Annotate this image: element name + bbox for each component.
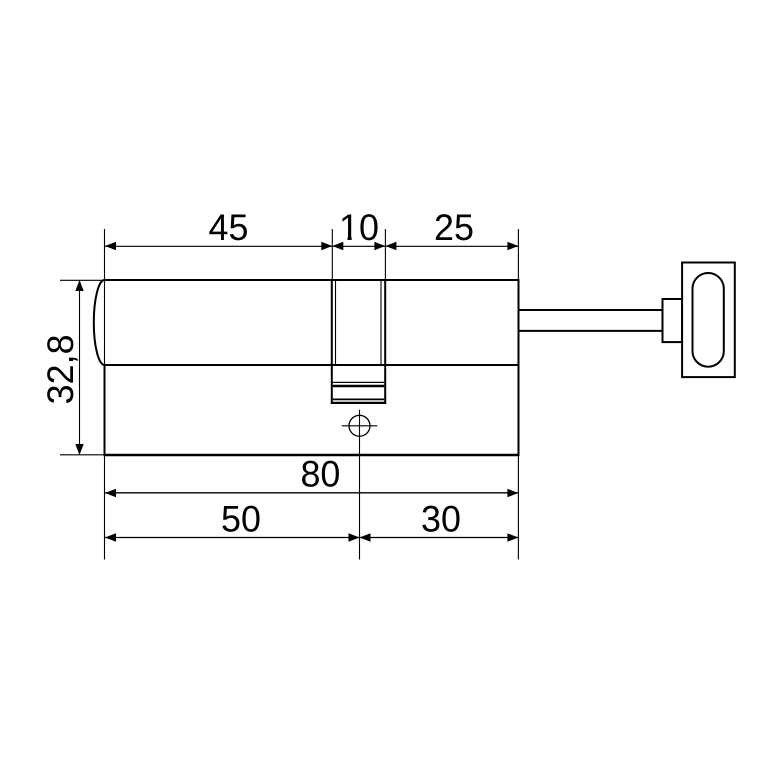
arrow 50 right <box>349 533 360 541</box>
arrow 45 right <box>321 242 332 250</box>
svg-text:25: 25 <box>434 207 474 248</box>
cylinder body top edge <box>104 279 520 281</box>
arrow 45 left <box>105 242 116 250</box>
key shaft bottom line <box>520 330 664 332</box>
dimension line 80 <box>105 492 518 494</box>
rounded cap arc <box>94 280 105 365</box>
cam tab line 1 <box>333 381 384 383</box>
svg-text:50: 50 <box>221 499 261 540</box>
cam slot inner left line <box>335 281 337 364</box>
extension line cam left <box>331 229 333 279</box>
svg-text:10: 10 <box>339 207 379 248</box>
cam tab line 2 <box>333 385 384 388</box>
body right edge <box>518 279 520 456</box>
key shaft top line <box>520 309 664 311</box>
extension line left <box>104 229 106 560</box>
cam slot outer left edge <box>331 279 333 404</box>
arrow 25 right <box>507 242 518 250</box>
arrow 32.8 bottom <box>75 444 83 455</box>
cam slot inner right line <box>380 281 382 364</box>
cylinder body bottom edge <box>104 454 520 456</box>
tick for 32.8 top <box>60 279 105 281</box>
arrow 30 right <box>507 533 518 541</box>
arrow 10 left <box>332 242 343 250</box>
cam tab line 3 <box>333 398 384 400</box>
svg-text:45: 45 <box>209 207 249 248</box>
tick for 32.8 bottom <box>60 454 105 456</box>
extension line cam right <box>384 229 386 279</box>
extension line center through screw hole <box>359 410 361 560</box>
key bow hole stadium <box>693 273 724 367</box>
arrow 30 left <box>360 533 371 541</box>
svg-text:30: 30 <box>421 499 461 540</box>
arrow 80 left <box>105 489 116 497</box>
dimension line 50 30 <box>105 537 518 539</box>
cam tab bottom edge <box>331 402 386 404</box>
digit 1 serif mask right <box>352 236 358 240</box>
key bow neck <box>663 299 683 342</box>
arrow 10 right <box>374 242 385 250</box>
top dimension line <box>105 245 518 247</box>
arrow 80 right <box>507 489 518 497</box>
svg-text:32,8: 32,8 <box>40 334 81 404</box>
key bow outer rectangle <box>682 263 735 378</box>
extension line right <box>517 229 519 560</box>
screw hole crosshair horizontal <box>342 425 377 427</box>
arrow 32.8 top <box>75 280 83 291</box>
arrow 25 left <box>385 242 396 250</box>
arrow 50 left <box>105 533 116 541</box>
dimension line 32.8 vertical <box>79 280 81 455</box>
cylinder mid parting line <box>104 364 520 366</box>
cam slot outer right edge <box>384 279 386 404</box>
svg-text:80: 80 <box>300 454 340 495</box>
fixing screw hole circle <box>349 415 370 436</box>
body left edge lower half <box>104 364 106 456</box>
digit 1 serif mask left <box>341 236 347 240</box>
